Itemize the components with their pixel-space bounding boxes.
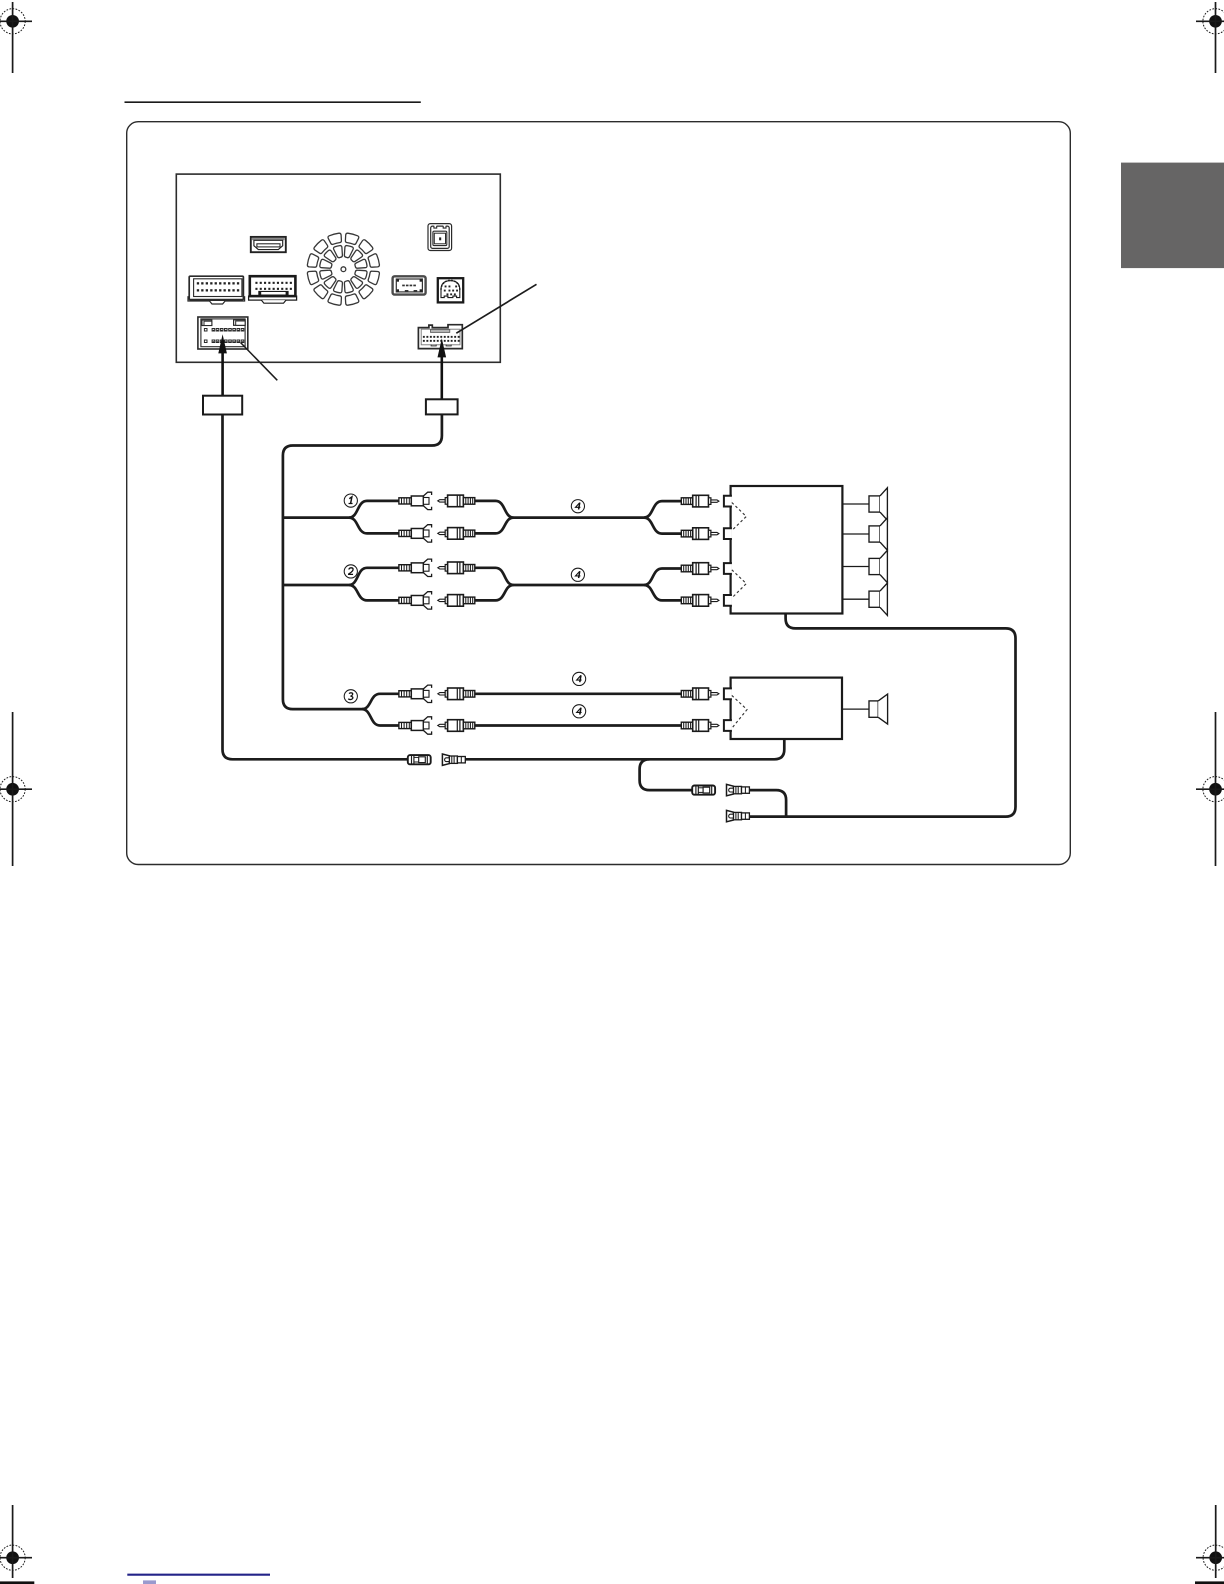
RCA jack pair 1 upper bbox=[399, 492, 432, 509]
wire pair 2 male side merge bbox=[475, 568, 644, 585]
registration mark middle-left bbox=[0, 712, 32, 866]
RCA plug into amp2 input 1 bbox=[681, 688, 719, 700]
bullet terminal ground female bbox=[408, 755, 431, 764]
RCA jack pair 1 lower bbox=[399, 525, 432, 542]
USB connector bbox=[393, 276, 426, 294]
RCA plug pair 1 upper bbox=[438, 495, 475, 507]
wire remote bullet to junction bbox=[749, 790, 786, 817]
arrow into connector C bbox=[218, 334, 227, 396]
registration mark middle-right bbox=[1196, 712, 1224, 866]
bullet terminal remote female bbox=[692, 786, 715, 795]
bullet terminal power male bbox=[727, 810, 750, 821]
24-pin connector A bbox=[188, 276, 245, 304]
wire pair 2 amp fork bbox=[644, 569, 681, 586]
RCA jack pair 3 lower bbox=[399, 717, 432, 734]
callout line connector C bbox=[241, 343, 278, 381]
label box 2 bbox=[426, 399, 458, 414]
RCA plug into amp2 input 2 bbox=[681, 720, 719, 732]
registration mark bottom-right bbox=[1196, 1505, 1224, 1578]
RCA plug pair 3 upper bbox=[438, 688, 475, 700]
section heading rule bbox=[125, 101, 421, 103]
wire branch pair 1 bbox=[283, 516, 349, 519]
RCA plug into amp1 input 1 bbox=[681, 495, 719, 507]
registration mark bottom-left bbox=[0, 1505, 32, 1578]
speaker output line amp2 bbox=[842, 708, 869, 710]
cooling fan bbox=[307, 233, 379, 305]
head unit rear panel bbox=[176, 174, 500, 362]
label circle 4c bbox=[573, 672, 586, 685]
speaker FR bbox=[869, 518, 887, 550]
registration mark top-right bbox=[1196, 2, 1224, 73]
rear square connector bbox=[428, 224, 452, 251]
label circle 4d bbox=[573, 705, 586, 718]
amp2 dashed chevron bbox=[732, 695, 747, 728]
bleed bar bottom-left bbox=[0, 1581, 34, 1584]
label circle 1 bbox=[344, 494, 357, 507]
speaker RR bbox=[869, 583, 887, 615]
footer blue rule bbox=[127, 1574, 270, 1576]
wire branch to remote bullet bbox=[640, 759, 693, 790]
RCA plug into amp1 input 4 bbox=[681, 595, 719, 607]
bullet terminal remote male bbox=[727, 784, 750, 795]
RCA jack pair 2 lower bbox=[399, 592, 432, 609]
wire fork pair 2 bbox=[349, 568, 399, 585]
DIN connector bbox=[438, 278, 463, 302]
RCA plug into amp1 input 2 bbox=[681, 528, 719, 540]
label circle 2 bbox=[344, 565, 357, 578]
amplifier box 2 bbox=[731, 678, 842, 739]
registration mark top-left bbox=[0, 2, 32, 73]
callout line connector D bbox=[456, 284, 536, 333]
label box 1 bbox=[203, 396, 242, 415]
amp1 dashed chevron A bbox=[732, 503, 747, 531]
gray sidebar tab bbox=[1121, 163, 1224, 269]
wire ground lead right segment to amp2 bbox=[465, 739, 784, 759]
wire label1 to ground lead bbox=[223, 415, 408, 760]
amp1 dashed chevron B bbox=[732, 570, 747, 598]
RCA jack pair 2 upper bbox=[399, 559, 432, 576]
arrow into connector D bbox=[438, 338, 447, 399]
HDMI connector bbox=[251, 237, 286, 252]
wire label2 to main bus bbox=[283, 414, 442, 709]
harness connector D bbox=[418, 325, 462, 349]
speaker RL bbox=[869, 550, 887, 582]
wire fork pair 1 bbox=[349, 501, 399, 518]
speaker FL bbox=[869, 488, 887, 520]
wire fork pair 3 bbox=[362, 694, 399, 709]
RCA plug pair 2 upper bbox=[438, 562, 475, 574]
wire pair 1 male side merge bbox=[475, 501, 644, 518]
harness connector C bbox=[198, 317, 248, 349]
RCA plug pair 3 lower bbox=[438, 720, 475, 732]
RCA plug pair 1 lower bbox=[438, 528, 475, 540]
wire amp1 power loop bbox=[749, 614, 1016, 817]
wire pair 1 amp fork bbox=[644, 501, 681, 517]
speaker output lines amp1 bbox=[842, 503, 869, 505]
diagram frame bbox=[127, 122, 1071, 865]
16-pin connector B bbox=[249, 276, 297, 303]
label circle 4b bbox=[571, 568, 584, 581]
RCA plug pair 2 lower bbox=[438, 595, 475, 607]
amplifier box 1 bbox=[731, 486, 843, 614]
RCA plug into amp1 input 3 bbox=[681, 563, 719, 575]
bleed bar bottom-right bbox=[1195, 1581, 1224, 1584]
footer blue text fragment bbox=[143, 1580, 156, 1584]
amp1 input notches bbox=[724, 496, 732, 507]
label circle 3 bbox=[344, 690, 357, 703]
wire pair 3 long leads bbox=[475, 692, 682, 695]
amp2 input notches bbox=[724, 688, 732, 699]
subwoofer speaker bbox=[869, 694, 888, 724]
RCA jack pair 3 upper bbox=[399, 685, 432, 702]
label circle 4a bbox=[571, 500, 584, 513]
wire branch pair 2 bbox=[283, 584, 349, 587]
bullet terminal ground male bbox=[442, 754, 465, 765]
